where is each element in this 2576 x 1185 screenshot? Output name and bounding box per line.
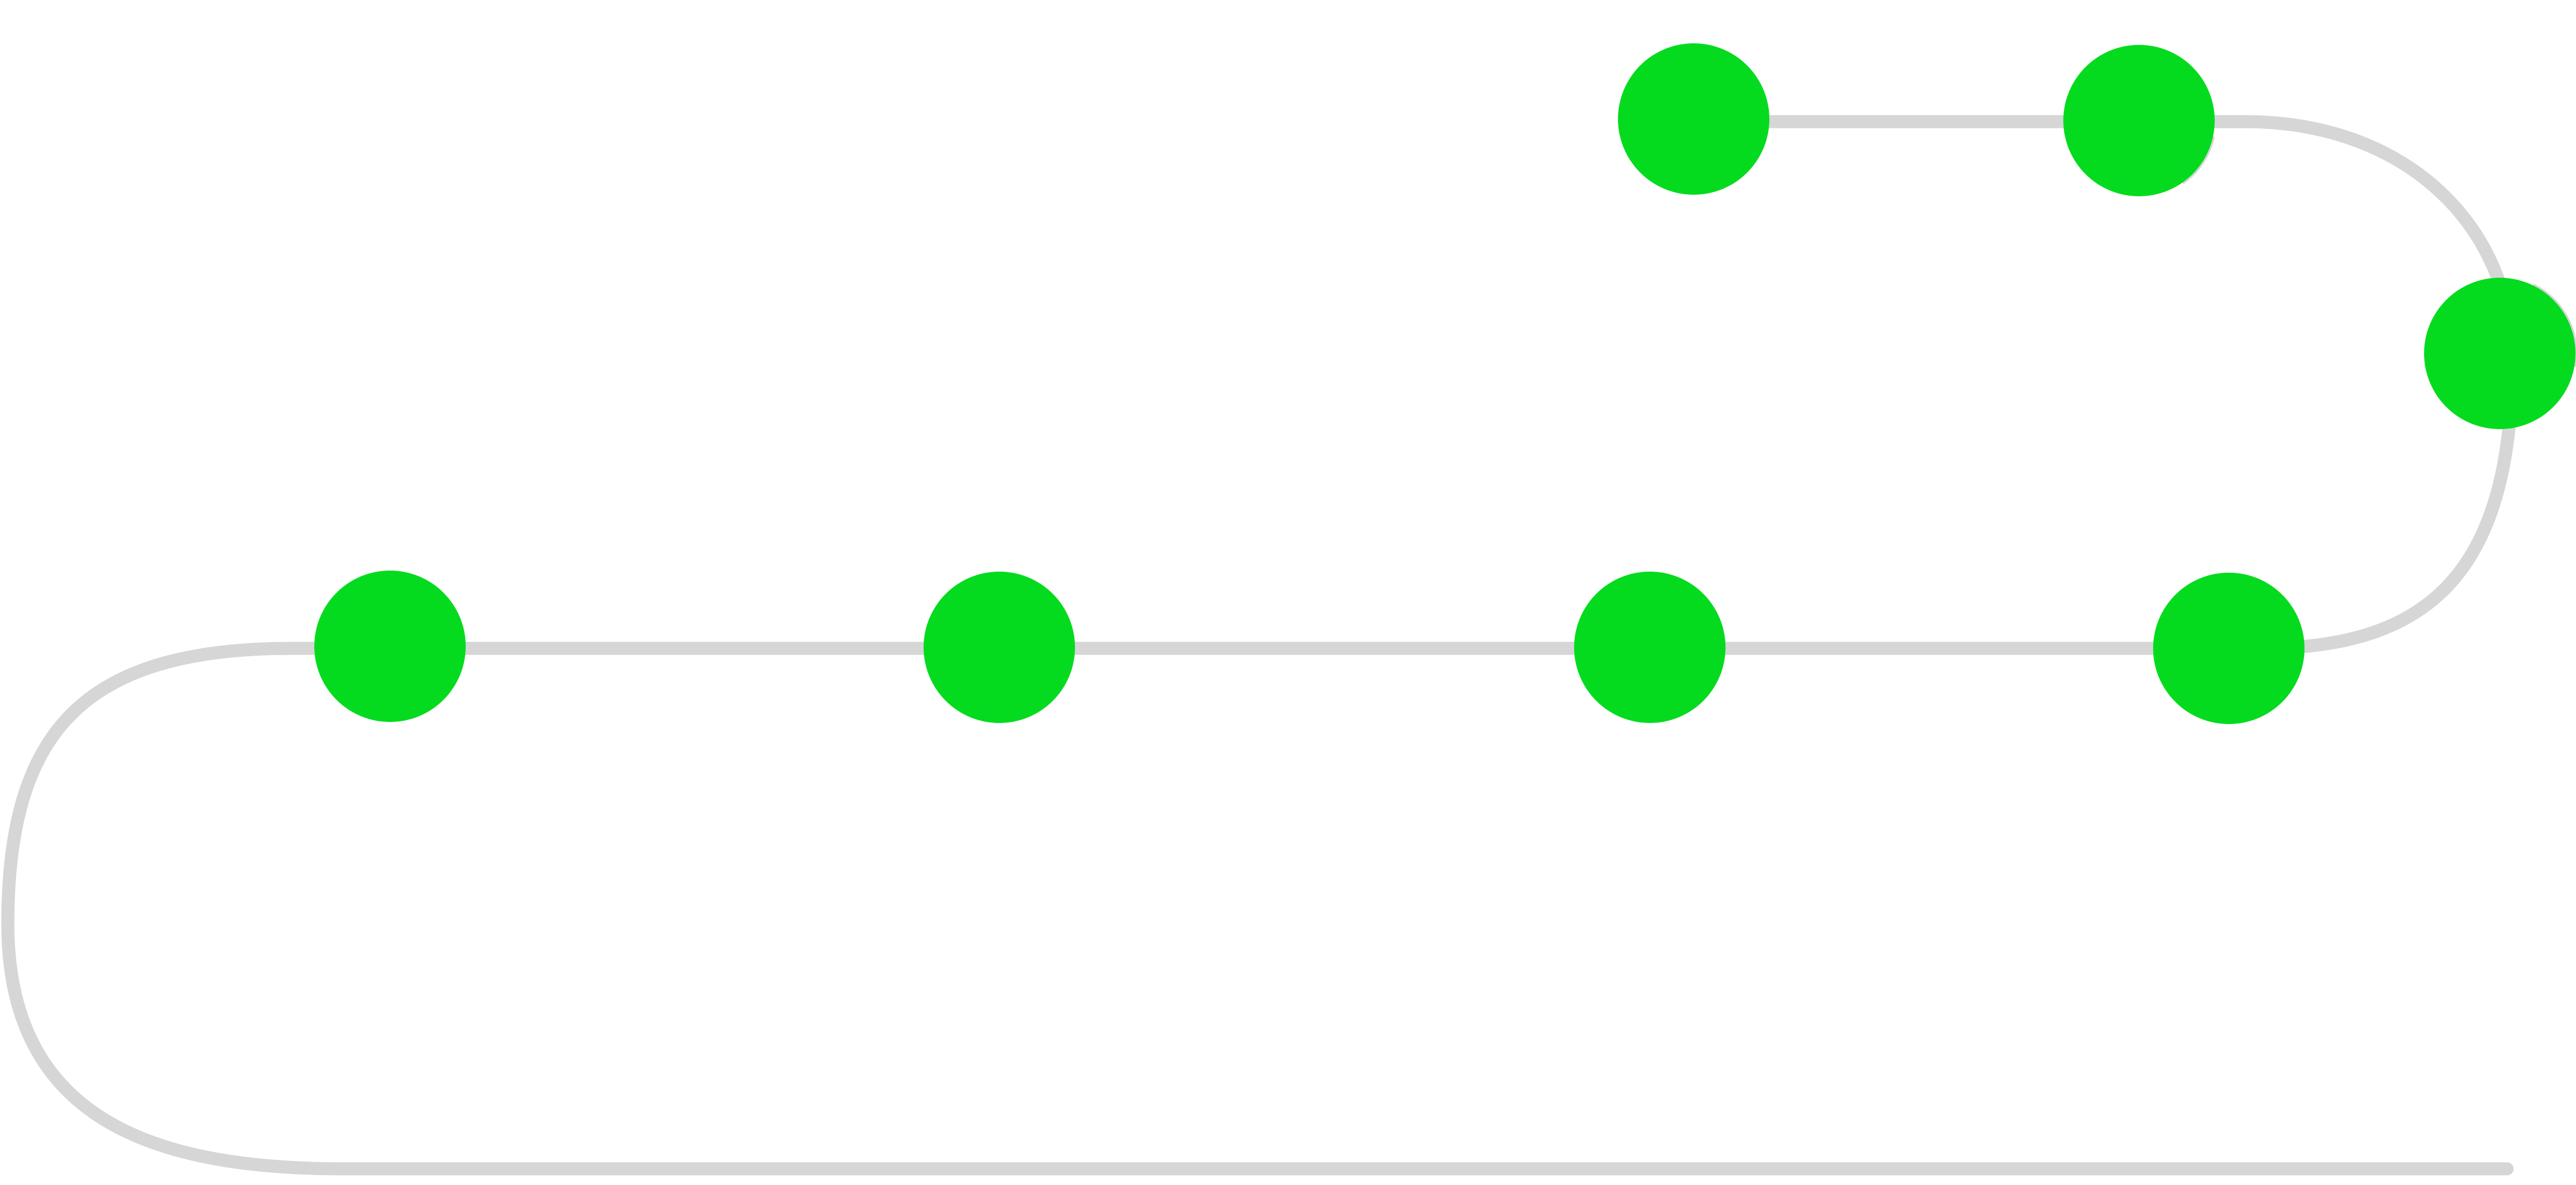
wire: left U-turn loop: [8, 648, 345, 1169]
node 7 (middle row right): [2153, 573, 2305, 724]
node 6 (middle row third): [1574, 572, 1726, 723]
node 3 (right curve): [2424, 278, 2575, 429]
wire: right U-turn loop through node 3: [2245, 122, 2512, 648]
node 1 (top row left): [1618, 43, 1769, 195]
node 4 (middle row far left): [314, 571, 466, 722]
wire: top row segment from node 1 to node 2 and onward: [1694, 115, 2245, 128]
wire: bottom row segment ending with round cap: [345, 1163, 2507, 1176]
shadow crescent behind node 3: [2533, 286, 2575, 367]
wire: middle row segment through nodes 7, 6, 5, 4: [292, 642, 2261, 655]
node 5 (middle row second): [924, 572, 1075, 723]
node 2 (top row right): [2063, 45, 2215, 196]
shadow crescent behind node 2: [2182, 136, 2213, 183]
